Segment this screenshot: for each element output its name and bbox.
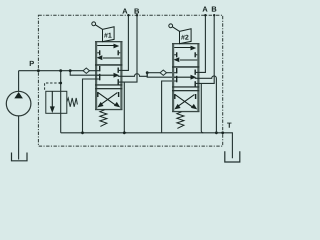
label P bbox=[30, 61, 34, 66]
dash-dot assembly envelope bbox=[38, 15, 222, 146]
node open-center branch bbox=[69, 69, 72, 72]
node carry-over drop junction bbox=[215, 131, 218, 134]
wire pump outlet riser bbox=[18, 71, 20, 92]
label B (valve 2) bbox=[212, 6, 217, 11]
wire V1 carry-over with crossover hop bbox=[118, 73, 148, 77]
wire relief outlet bbox=[60, 113, 62, 133]
wire V2 open-center feed bbox=[147, 73, 177, 78]
wire check valve CV2 to V2 P port bbox=[167, 72, 178, 74]
relief valve RV1 body bbox=[46, 91, 67, 113]
node V1 tank junction bbox=[81, 131, 84, 134]
wire V2 port A riser bbox=[195, 15, 206, 72]
wire V1 port A riser bbox=[118, 15, 129, 70]
wire V1 tank gallery bbox=[83, 79, 101, 133]
label A (valve 2) bbox=[202, 6, 207, 11]
label T bbox=[227, 123, 231, 128]
node B1 drain junction bbox=[123, 131, 126, 134]
label B (valve 1) bbox=[135, 8, 140, 13]
valve V2 tag text bbox=[181, 35, 185, 40]
tank T1 (bottom left) bbox=[12, 153, 28, 161]
pump P1 bbox=[6, 91, 31, 116]
valve section V1 body bbox=[92, 22, 123, 127]
wire V1 port B riser bbox=[118, 15, 137, 82]
node V2 supply junction bbox=[146, 71, 149, 74]
relief valve RV1 spring bbox=[67, 98, 78, 107]
wire tank return line bbox=[61, 133, 233, 159]
node relief branch bbox=[59, 69, 62, 72]
node B2 envelope port bbox=[213, 14, 215, 16]
node A2 envelope port bbox=[204, 14, 206, 16]
wire P supply line bbox=[19, 70, 84, 72]
wire check valve to V1 P port bbox=[90, 70, 101, 72]
relief valve RV1 inlet wire bbox=[60, 71, 62, 92]
wire V2 port B riser bbox=[195, 15, 215, 83]
label A (valve 1) bbox=[122, 8, 127, 13]
wire V2 tank gallery bbox=[162, 81, 178, 133]
valve section V2 body bbox=[169, 24, 200, 128]
wire V1 open-center feed bbox=[70, 71, 100, 76]
wire V2 carry-over with crossover hop to tank bbox=[195, 76, 217, 133]
node A1 envelope port bbox=[127, 14, 129, 16]
tank T2 (bottom right) bbox=[225, 151, 240, 162]
check valve CV2 (diamond) bbox=[160, 70, 166, 75]
wire V1 port B drain bbox=[124, 82, 126, 133]
wire V2 port B drain bbox=[201, 83, 203, 132]
check valve CV1 (diamond) bbox=[83, 68, 89, 73]
node relief pilot tap bbox=[59, 82, 62, 85]
wire pump suction line bbox=[18, 116, 20, 160]
valve V1 tag text bbox=[104, 33, 108, 38]
wire junction to check valve CV2 bbox=[147, 72, 160, 74]
node T port on envelope bbox=[221, 131, 224, 134]
relief valve RV1 through line bbox=[60, 91, 62, 113]
relief valve RV1 pilot line (dashed) bbox=[45, 83, 61, 91]
node B1 envelope port bbox=[136, 14, 138, 16]
node P port on envelope bbox=[37, 69, 40, 72]
relief valve RV1 flow arrow bbox=[51, 91, 53, 107]
